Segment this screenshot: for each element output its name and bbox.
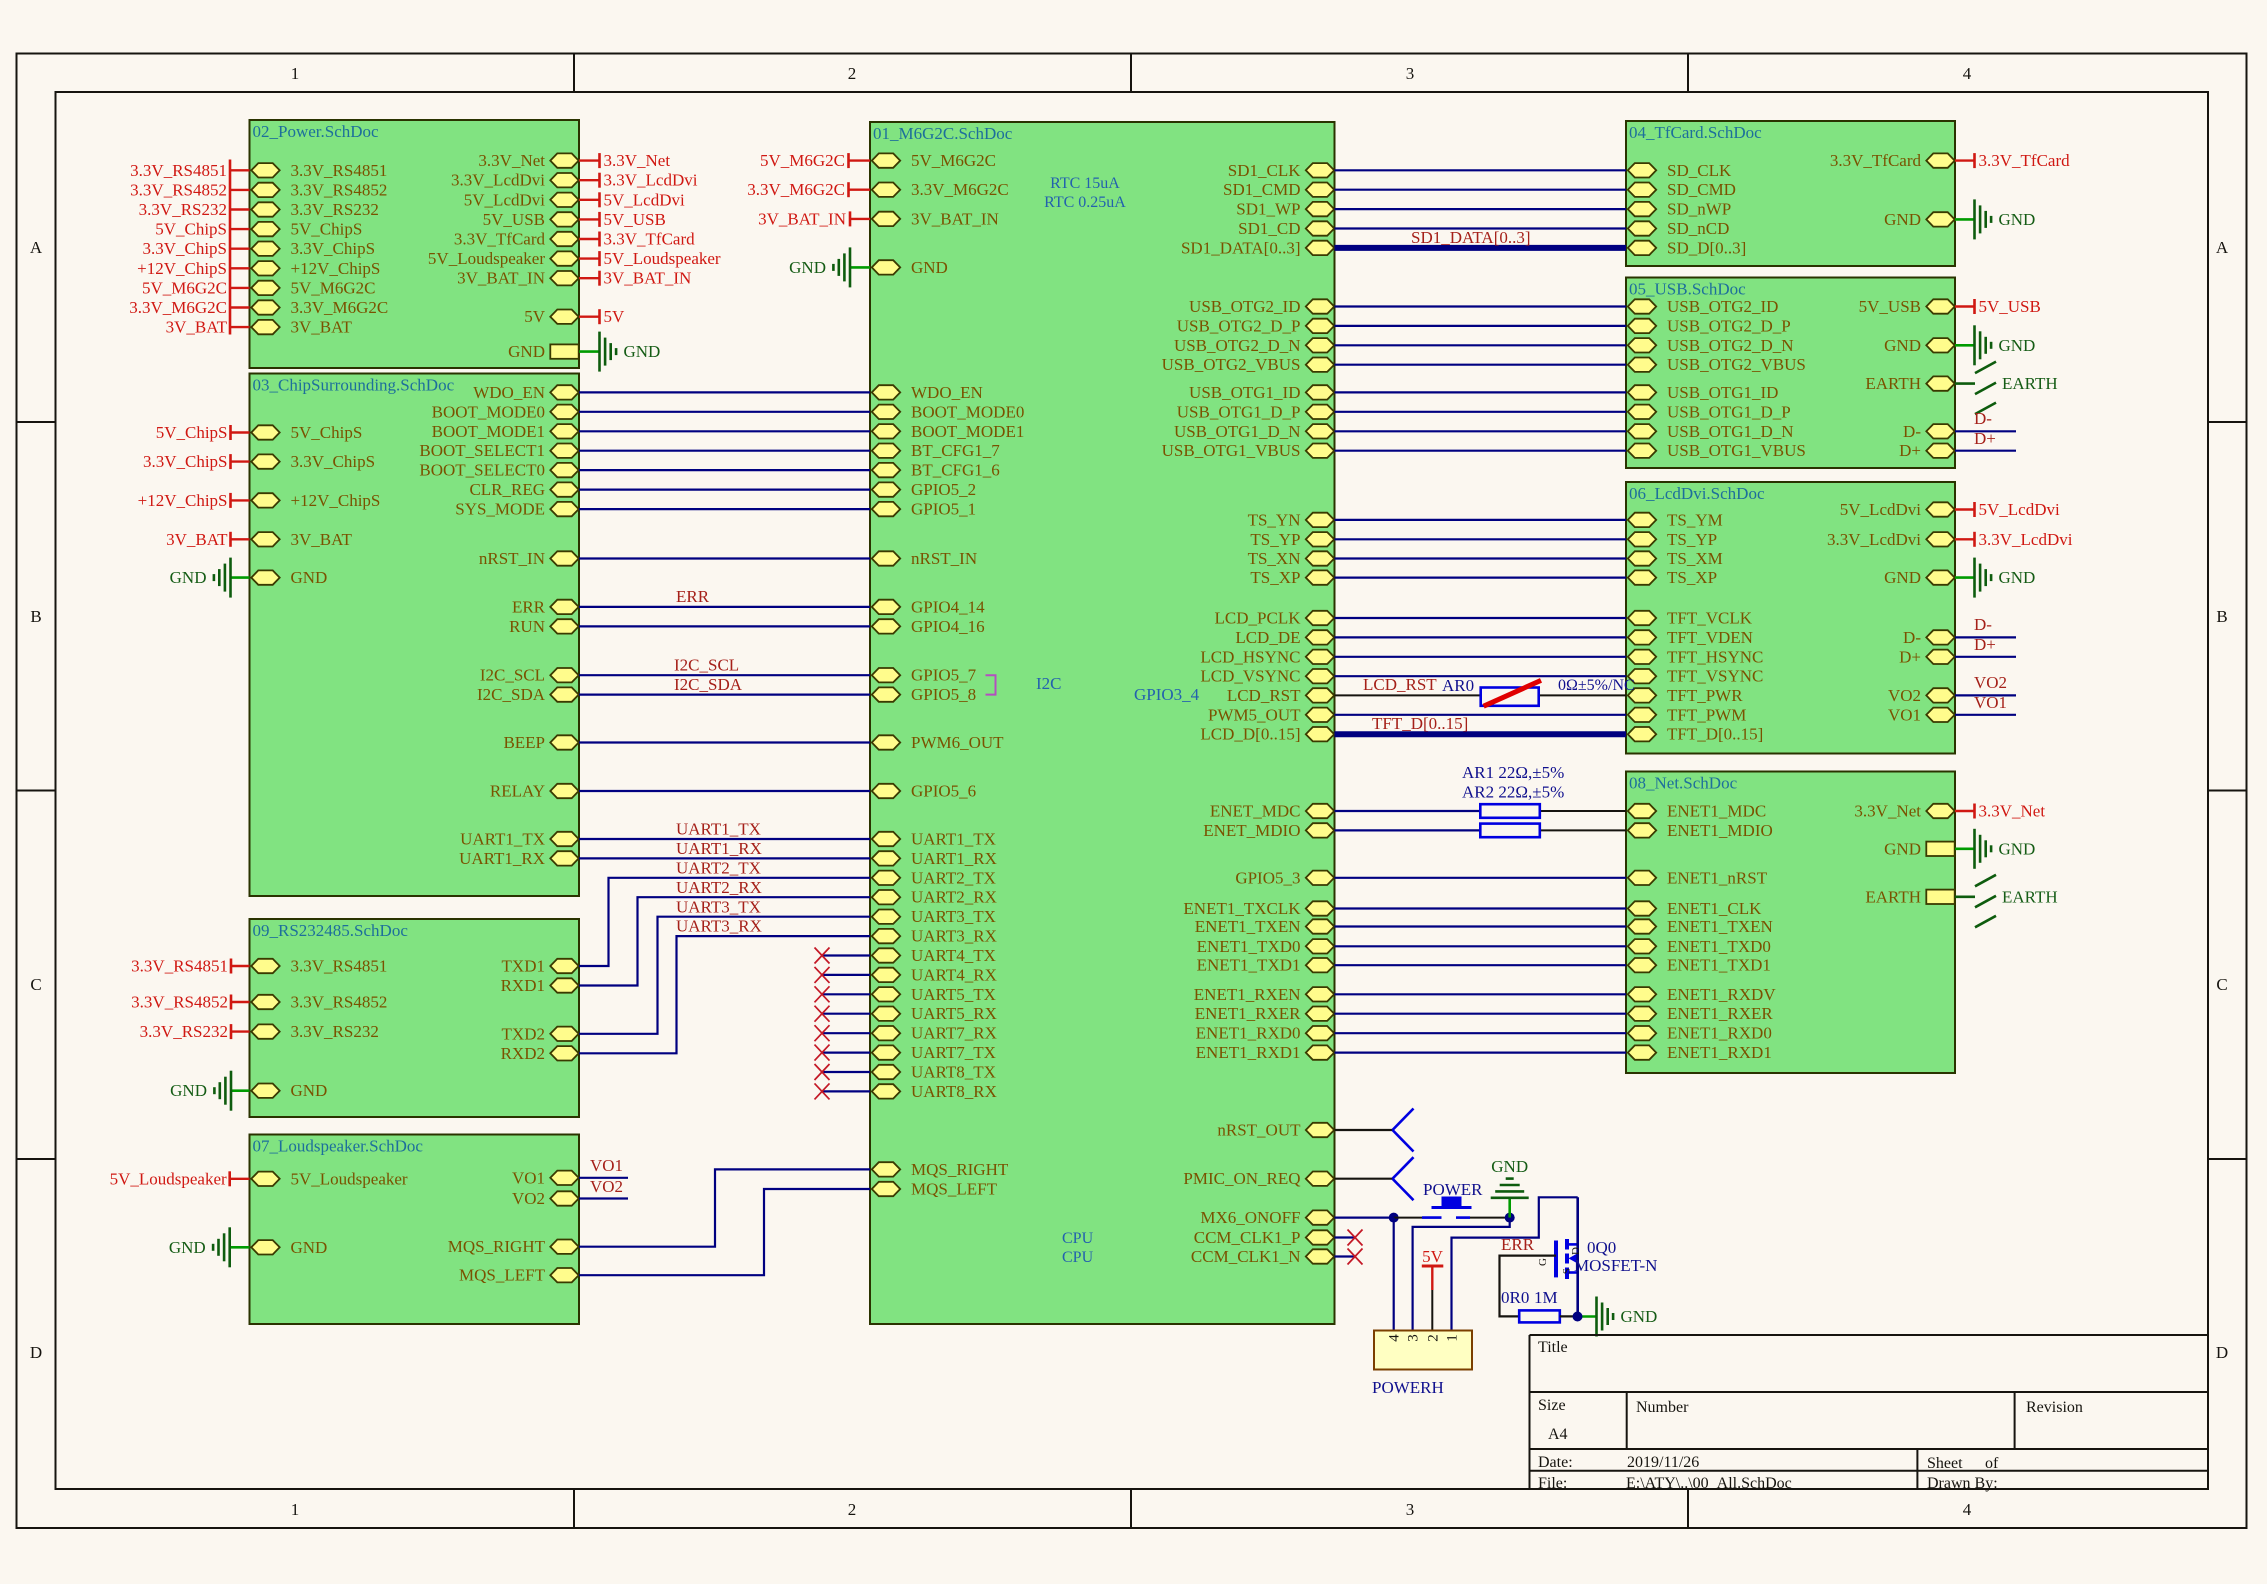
svg-text:GND: GND: [1621, 1307, 1658, 1326]
sheet entry USB_OTG1_ID (05_USB left): [1628, 383, 1779, 402]
svg-text:USB_OTG2_D_P: USB_OTG2_D_P: [1667, 316, 1791, 335]
wire wire UART1_TX: [579, 838, 870, 840]
svg-text:+12V_ChipS: +12V_ChipS: [291, 491, 381, 510]
sheet entry ENET_MDC (01_M6G2C right): [1210, 802, 1334, 821]
sheet entry 3.3V_TfCard (04_TfCard right): [1830, 151, 1955, 170]
wire VO1 stub (06): [1955, 714, 2016, 716]
wire wire ENET_MDIO right: [1540, 829, 1626, 831]
sheet entry ENET1_RXD1 (08_Net left): [1628, 1043, 1772, 1062]
svg-text:5V_USB: 5V_USB: [604, 210, 666, 229]
sheet entry ENET1_MDIO (08_Net left): [1628, 821, 1773, 840]
sheet entry USB_OTG1_D_N (05_USB left): [1628, 422, 1794, 441]
sheet entry UART2_TX (01_M6G2C left): [872, 868, 996, 887]
power port 3V_BAT_IN: [758, 209, 850, 228]
svg-text:ENET1_RXEN: ENET1_RXEN: [1194, 985, 1301, 1004]
svg-text:5V_Loudspeaker: 5V_Loudspeaker: [110, 1169, 227, 1188]
sheet entry SD_CLK (04_TfCard left): [1628, 161, 1732, 180]
svg-text:PWM6_OUT: PWM6_OUT: [911, 733, 1004, 752]
sheet entry 3V_BAT_IN (01_M6G2C left): [872, 209, 999, 228]
wire wire RELAY: [579, 790, 870, 792]
svg-text:ENET1_RXER: ENET1_RXER: [1195, 1004, 1301, 1023]
wire wire UART1_RX: [579, 857, 870, 859]
svg-text:SD_D[0..3]: SD_D[0..3]: [1667, 238, 1746, 257]
svg-text:GND: GND: [1884, 336, 1921, 355]
svg-text:3.3V_LcdDvi: 3.3V_LcdDvi: [604, 171, 698, 190]
wire wire MQS_LEFT: [579, 1189, 870, 1275]
svg-text:UART4_TX: UART4_TX: [911, 946, 996, 965]
sheet entry D+ (05_USB right): [1899, 441, 1955, 460]
svg-text:UART2_RX: UART2_RX: [676, 878, 762, 897]
sheet entry ENET1_RXD0 (08_Net left): [1628, 1024, 1772, 1043]
power port 5V: [1422, 1247, 1444, 1266]
sheet entry ENET1_TXD0 (08_Net left): [1628, 937, 1771, 956]
power port 5V_USB: [1975, 297, 2041, 316]
svg-text:VO2: VO2: [1888, 686, 1921, 705]
sheet entry TS_XP (06_LcdDvi left): [1628, 568, 1717, 587]
svg-text:3.3V_ChipS: 3.3V_ChipS: [143, 452, 228, 471]
svg-text:UART1_TX: UART1_TX: [911, 830, 996, 849]
svg-text:3.3V_TfCard: 3.3V_TfCard: [604, 230, 696, 249]
svg-text:GND: GND: [508, 342, 545, 361]
svg-text:2: 2: [848, 1500, 857, 1519]
wire wire POWERH pin2: [1431, 1290, 1433, 1331]
sheet entry BOOT_MODE0 (03_ChipSurrounding right): [432, 402, 579, 421]
sheet entry LCD_D[0..15] (01_M6G2C right): [1200, 725, 1334, 744]
sheet entry 3.3V_ChipS (02_Power left): [251, 239, 375, 258]
wire stub 5V_ChipS: [231, 431, 250, 433]
MOSFET drain rail: [1576, 1197, 1579, 1317]
sheet entry EARTH (08_Net right): [1865, 887, 1954, 906]
svg-text:ENET_MDIO: ENET_MDIO: [1203, 821, 1300, 840]
svg-text:PMIC_ON_REQ: PMIC_ON_REQ: [1183, 1169, 1300, 1188]
sheet entry TS_XM (06_LcdDvi left): [1628, 549, 1723, 568]
wire wire USB_OTG2_D_N: [1335, 344, 1627, 346]
sheet entry TS_XP (01_M6G2C right): [1250, 568, 1334, 587]
svg-text:USB_OTG1_VBUS: USB_OTG1_VBUS: [1162, 441, 1301, 460]
svg-text:ENET1_nRST: ENET1_nRST: [1667, 868, 1768, 887]
sheet entry 3V_BAT (02_Power left): [251, 318, 352, 337]
sheet entry GND (01_M6G2C left): [872, 258, 948, 277]
sheet entry GND (09_RS232485 left): [251, 1081, 327, 1100]
power port +12V_ChipS: [138, 491, 231, 510]
svg-text:GND: GND: [170, 1081, 207, 1100]
sheet entry 3.3V_LcdDvi (06_LcdDvi right): [1827, 530, 1955, 549]
wire GND wire (07): [230, 1246, 250, 1249]
power port 5V_Loudspeaker: [110, 1169, 230, 1188]
sheet entry GPIO5_8 (01_M6G2C left): [872, 685, 976, 704]
svg-text:MQS_RIGHT: MQS_RIGHT: [448, 1237, 546, 1256]
ground GND: [1597, 1297, 1658, 1337]
svg-text:USB_OTG1_D_N: USB_OTG1_D_N: [1174, 422, 1301, 441]
wire switch contact left: [1422, 1216, 1442, 1219]
svg-text:TS_XM: TS_XM: [1667, 549, 1723, 568]
sheet entry BOOT_SELECT0 (03_ChipSurrounding right): [419, 461, 578, 480]
wire GND wire (06): [1955, 576, 1974, 579]
svg-text:A: A: [2216, 238, 2229, 257]
svg-text:D+: D+: [1974, 429, 1996, 448]
svg-text:3.3V_Net: 3.3V_Net: [478, 151, 545, 170]
svg-text:TS_YM: TS_YM: [1667, 510, 1723, 529]
svg-text:ENET1_TXD1: ENET1_TXD1: [1667, 956, 1771, 975]
sheet entry D- (05_USB right): [1903, 422, 1955, 441]
sheet symbol 01_M6G2C: [870, 122, 1335, 1324]
svg-text:5V_ChipS: 5V_ChipS: [156, 423, 228, 442]
sheet entry USB_OTG2_VBUS (01_M6G2C right): [1162, 355, 1335, 374]
sheet entry CCM_CLK1_N (01_M6G2C right): [1191, 1247, 1334, 1266]
svg-text:D+: D+: [1899, 441, 1921, 460]
svg-text:VO1: VO1: [512, 1168, 545, 1187]
svg-text:Number: Number: [1636, 1399, 1689, 1416]
svg-text:BT_CFG1_7: BT_CFG1_7: [911, 441, 1000, 460]
svg-text:UART1_TX: UART1_TX: [676, 820, 761, 839]
sheet entry ENET1_RXEN (01_M6G2C right): [1194, 985, 1334, 1004]
svg-text:MX6_ONOFF: MX6_ONOFF: [1200, 1208, 1300, 1227]
svg-text:TFT_PWR: TFT_PWR: [1667, 686, 1743, 705]
svg-text:3V_BAT_IN: 3V_BAT_IN: [457, 269, 545, 288]
sheet entry TS_XN (01_M6G2C right): [1248, 549, 1335, 568]
wire wire RUN: [579, 625, 870, 627]
svg-text:5V_LcdDvi: 5V_LcdDvi: [464, 190, 545, 209]
svg-text:09_RS232485.SchDoc: 09_RS232485.SchDoc: [253, 921, 409, 940]
svg-text:UART3_RX: UART3_RX: [676, 917, 762, 936]
svg-text:D: D: [1570, 1247, 1582, 1255]
svg-text:5V_M6G2C: 5V_M6G2C: [291, 278, 376, 297]
wire wire ENET1_RXEN: [1335, 993, 1627, 995]
wire wire USB_OTG1_D_P: [1335, 411, 1627, 413]
sheet entry GND (05_USB right): [1884, 336, 1955, 355]
sheet entry 5V_LcdDvi (02_Power right): [464, 190, 579, 209]
svg-text:GND: GND: [1491, 1157, 1528, 1176]
sheet entry UART8_RX (01_M6G2C left): [872, 1082, 997, 1101]
resistor AR1: [1480, 804, 1540, 818]
sheet entry I2C_SDA (03_ChipSurrounding right): [477, 685, 579, 704]
resistor AR0: [1481, 688, 1539, 706]
svg-text:4: 4: [1963, 64, 1972, 83]
power port 3.3V_Net: [1975, 802, 2046, 821]
wire wire GPIO5_1: [579, 508, 870, 510]
wire wire PMIC_ON_REQ: [1335, 1178, 1393, 1180]
svg-text:GPIO5_8: GPIO5_8: [911, 685, 976, 704]
sheet entry 3.3V_RS232 (09_RS232485 left): [251, 1022, 379, 1041]
wire stub 3V_BAT_IN: [579, 277, 599, 279]
svg-text:USB_OTG1_D_P: USB_OTG1_D_P: [1177, 402, 1301, 421]
svg-text:B: B: [30, 607, 41, 626]
svg-text:ENET1_TXD0: ENET1_TXD0: [1667, 937, 1771, 956]
svg-text:2: 2: [1425, 1334, 1441, 1342]
svg-text:PWM5_OUT: PWM5_OUT: [1208, 705, 1301, 724]
ground GND: [170, 1071, 231, 1111]
svg-text:5V_USB: 5V_USB: [483, 210, 545, 229]
svg-text:3.3V_TfCard: 3.3V_TfCard: [1830, 151, 1922, 170]
power port 3.3V_Net: [600, 151, 671, 170]
svg-text:TS_XP: TS_XP: [1250, 568, 1300, 587]
svg-text:UART5_TX: UART5_TX: [911, 985, 996, 1004]
wire EARTH wire (05): [1955, 382, 1975, 385]
svg-text:CCM_CLK1_N: CCM_CLK1_N: [1191, 1247, 1301, 1266]
sheet entry PWM6_OUT (01_M6G2C left): [872, 733, 1004, 752]
wire wire ENET1_RXD0: [1335, 1032, 1627, 1034]
svg-text:5V_M6G2C: 5V_M6G2C: [911, 151, 996, 170]
svg-text:ERR: ERR: [676, 587, 710, 606]
svg-text:5V_M6G2C: 5V_M6G2C: [760, 151, 845, 170]
svg-text:UART8_RX: UART8_RX: [911, 1082, 997, 1101]
svg-text:TFT_VDEN: TFT_VDEN: [1667, 628, 1753, 647]
svg-text:UART1_RX: UART1_RX: [459, 849, 545, 868]
sheet entry I2C_SCL (03_ChipSurrounding right): [480, 666, 579, 685]
sheet entry 5V_ChipS (03_ChipSurrounding left): [251, 423, 362, 442]
sheet entry VO2 (07_Loudspeaker right): [512, 1189, 579, 1208]
svg-text:GPIO5_3: GPIO5_3: [1235, 868, 1300, 887]
wire stub UART5_TX: [822, 993, 870, 995]
wire wire TS_XN: [1335, 557, 1627, 559]
sheet entry LCD_HSYNC (01_M6G2C right): [1200, 647, 1334, 666]
sheet entry 3.3V_LcdDvi (02_Power right): [451, 171, 579, 190]
svg-text:3.3V_LcdDvi: 3.3V_LcdDvi: [1827, 530, 1921, 549]
svg-text:RTC 0.25uA: RTC 0.25uA: [1044, 194, 1126, 211]
svg-text:GND: GND: [170, 568, 207, 587]
svg-text:ENET1_TXEN: ENET1_TXEN: [1667, 917, 1773, 936]
svg-text:3.3V_RS4851: 3.3V_RS4851: [291, 957, 388, 976]
sheet entry 3.3V_RS4851 (02_Power left): [251, 161, 387, 180]
power port 3.3V_RS4851: [131, 957, 231, 976]
svg-text:UART1_RX: UART1_RX: [911, 849, 997, 868]
svg-text:SD1_DATA[0..3]: SD1_DATA[0..3]: [1181, 238, 1301, 257]
svg-text:VO1: VO1: [1888, 705, 1921, 724]
sheet entry PMIC_ON_REQ (01_M6G2C right): [1183, 1169, 1334, 1188]
svg-text:3.3V_LcdDvi: 3.3V_LcdDvi: [451, 171, 545, 190]
sheet entry PWM5_OUT (01_M6G2C right): [1208, 705, 1334, 724]
sheet entry VO1 (07_Loudspeaker right): [512, 1168, 579, 1187]
no-ERC cross: [815, 1045, 830, 1061]
wire wire SD1_CLK: [1335, 169, 1627, 171]
svg-text:3V_BAT_IN: 3V_BAT_IN: [604, 269, 692, 288]
sheet entry USB_OTG2_D_N (05_USB left): [1628, 336, 1794, 355]
wire wire ENET1_TXD0: [1335, 945, 1627, 947]
svg-text:UART8_TX: UART8_TX: [911, 1063, 996, 1082]
wire wire LCD_DE: [1335, 636, 1627, 638]
wire wire ENET_MDC right: [1540, 810, 1626, 812]
sheet entry SD_nWP (04_TfCard left): [1628, 200, 1731, 219]
wire stub 5V_ChipS: [230, 228, 250, 230]
sheet entry 3.3V_M6G2C (01_M6G2C left): [872, 180, 1009, 199]
svg-text:GND: GND: [291, 1081, 328, 1100]
wire stub UART4_RX: [822, 974, 870, 976]
wire stub +12V_ChipS: [230, 267, 250, 269]
svg-text:UART3_RX: UART3_RX: [911, 927, 997, 946]
svg-text:1: 1: [291, 1500, 300, 1519]
svg-text:GPIO5_6: GPIO5_6: [911, 782, 976, 801]
sheet entry UART2_RX (01_M6G2C left): [872, 888, 997, 907]
svg-text:D-: D-: [1903, 422, 1921, 441]
sheet entry +12V_ChipS (03_ChipSurrounding left): [251, 491, 380, 510]
sheet entry UART5_RX (01_M6G2C left): [872, 1004, 997, 1023]
sheet entry UART3_RX (01_M6G2C left): [872, 927, 997, 946]
svg-text:3V_BAT: 3V_BAT: [291, 318, 353, 337]
svg-text:VO2: VO2: [512, 1189, 545, 1208]
no-ERC cross: [815, 948, 830, 964]
svg-text:1: 1: [1445, 1334, 1461, 1342]
svg-text:+12V_ChipS: +12V_ChipS: [137, 259, 227, 278]
wire stub 5V_Loudspeaker: [579, 257, 599, 259]
sheet entry D+ (06_LcdDvi right): [1899, 647, 1955, 666]
sheet entry BT_CFG1_7 (01_M6G2C left): [872, 441, 1000, 460]
wire stub 3.3V_Net: [1955, 810, 1974, 812]
sheet entry MX6_ONOFF (01_M6G2C right): [1200, 1208, 1334, 1227]
sheet entry LCD_RST (01_M6G2C right): [1227, 686, 1334, 705]
svg-text:ENET1_RXER: ENET1_RXER: [1667, 1004, 1773, 1023]
frame column ticks bottom: [573, 1489, 575, 1528]
svg-text:5V_USB: 5V_USB: [1859, 297, 1921, 316]
wire wire BT_CFG0: [579, 469, 870, 471]
svg-text:5V_USB: 5V_USB: [1979, 297, 2041, 316]
wire wire ENET1_RXD1: [1335, 1051, 1627, 1053]
svg-text:ENET_MDC: ENET_MDC: [1210, 802, 1301, 821]
wire wire LCD_VSYNC: [1335, 675, 1627, 677]
sheet entry BOOT_MODE1 (01_M6G2C left): [872, 422, 1025, 441]
wire stub 5V_M6G2C: [849, 159, 871, 161]
svg-text:ENET1_TXD1: ENET1_TXD1: [1197, 956, 1301, 975]
wire stub 3.3V_RS4852: [231, 1001, 250, 1003]
ground GND: [600, 332, 661, 372]
svg-text:USB_OTG2_ID: USB_OTG2_ID: [1189, 297, 1300, 316]
svg-text:UART4_RX: UART4_RX: [911, 965, 997, 984]
sheet entry GPIO5_7 (01_M6G2C left): [872, 666, 977, 685]
wire wire BOOT_MODE0: [579, 411, 870, 413]
svg-text:GND: GND: [291, 568, 328, 587]
svg-text:UART1_RX: UART1_RX: [676, 839, 762, 858]
svg-text:01_M6G2C.SchDoc: 01_M6G2C.SchDoc: [873, 124, 1013, 143]
sheet symbol 02_Power: [250, 120, 580, 368]
svg-text:UART2_RX: UART2_RX: [911, 888, 997, 907]
ground GND: [1491, 1157, 1529, 1218]
svg-text:3.3V_TfCard: 3.3V_TfCard: [1979, 151, 2071, 170]
ground GND: [170, 558, 231, 598]
ground GND: [1975, 199, 2036, 239]
svg-text:BOOT_SELECT0: BOOT_SELECT0: [419, 461, 545, 480]
sheet entry MQS_RIGHT (01_M6G2C left): [872, 1160, 1009, 1179]
svg-text:BEEP: BEEP: [503, 733, 545, 752]
svg-text:0Q0: 0Q0: [1587, 1238, 1616, 1257]
wire stub 3.3V_RS232: [231, 1030, 250, 1032]
svg-text:GPIO5_1: GPIO5_1: [911, 500, 976, 519]
svg-text:GPIO3_4: GPIO3_4: [1134, 685, 1200, 704]
svg-text:UART7_RX: UART7_RX: [911, 1024, 997, 1043]
wire wire TS_YN: [1335, 519, 1627, 521]
svg-text:3.3V_M6G2C: 3.3V_M6G2C: [911, 180, 1009, 199]
sheet entry GPIO4_16 (01_M6G2C left): [872, 617, 985, 636]
sheet entry SD_nCD (04_TfCard left): [1628, 219, 1730, 238]
svg-text:3.3V_RS232: 3.3V_RS232: [291, 1022, 379, 1041]
svg-text:5V_Loudspeaker: 5V_Loudspeaker: [428, 249, 545, 268]
sheet entry USB_OTG2_ID (01_M6G2C right): [1189, 297, 1334, 316]
wire wire LCD_RST right: [1539, 694, 1626, 696]
svg-text:02_Power.SchDoc: 02_Power.SchDoc: [253, 122, 380, 141]
svg-text:Size: Size: [1538, 1397, 1566, 1414]
wire stub 3.3V_RS4852: [230, 189, 250, 191]
sheet entry GPIO5_3 (01_M6G2C right): [1235, 868, 1334, 887]
sheet symbol 04_TfCard: [1626, 121, 1955, 266]
wire wire LCD_HSYNC: [1335, 656, 1627, 658]
power port 3.3V_ChipS: [143, 452, 231, 471]
svg-text:UART7_TX: UART7_TX: [911, 1043, 996, 1062]
sheet entry 5V_M6G2C (02_Power left): [251, 278, 375, 297]
svg-text:2019/11/26: 2019/11/26: [1627, 1454, 1699, 1471]
svg-text:AR0: AR0: [1442, 676, 1474, 695]
sheet entry GND (07_Loudspeaker left): [251, 1238, 327, 1257]
sheet symbol 03_ChipSurrounding: [250, 374, 580, 897]
svg-text:Title: Title: [1538, 1339, 1568, 1356]
wire wire SD1_CMD: [1335, 189, 1627, 191]
wire stub 5V_USB: [579, 218, 599, 220]
svg-text:I2C_SDA: I2C_SDA: [477, 685, 546, 704]
power port 3V_BAT: [166, 530, 230, 549]
wire D+ stub (05): [1955, 450, 2016, 452]
svg-text:1M: 1M: [1534, 1288, 1558, 1307]
frame row ticks right: [2208, 421, 2247, 423]
wire wire ENET1_TXEN: [1335, 925, 1627, 927]
svg-text:5V_ChipS: 5V_ChipS: [155, 220, 227, 239]
wire stub UART8_RX: [822, 1090, 870, 1092]
sheet entry ENET1_RXER (08_Net left): [1628, 1004, 1774, 1023]
sheet entry 3.3V_Net (02_Power right): [478, 151, 578, 170]
svg-text:D-: D-: [1903, 628, 1921, 647]
pushbutton POWER bar: [1432, 1206, 1472, 1209]
sheet entry SYS_MODE (03_ChipSurrounding right): [455, 500, 578, 519]
sheet entry 3.3V_RS4852 (02_Power left): [251, 180, 387, 199]
wire VO2 stub (07): [579, 1197, 628, 1199]
sheet entry TFT_PWM (06_LcdDvi left): [1628, 705, 1747, 724]
wire stub 3.3V_Net: [579, 159, 599, 161]
wire stub 3.3V_RS4851: [230, 169, 250, 171]
svg-text:LCD_RST: LCD_RST: [1227, 686, 1301, 705]
svg-text:SD1_CMD: SD1_CMD: [1223, 180, 1300, 199]
power port 3.3V_LcdDvi: [600, 171, 698, 190]
svg-text:VO2: VO2: [1974, 673, 2007, 692]
junction: [1573, 1312, 1583, 1322]
sheet entry 3.3V_TfCard (02_Power right): [454, 230, 579, 249]
sheet entry 3V_BAT (03_ChipSurrounding left): [251, 530, 352, 549]
svg-text:nRST_OUT: nRST_OUT: [1217, 1121, 1301, 1140]
sheet entry MQS_LEFT (07_Loudspeaker right): [459, 1266, 579, 1285]
svg-text:+12V_ChipS: +12V_ChipS: [138, 491, 228, 510]
svg-text:MQS_LEFT: MQS_LEFT: [459, 1266, 546, 1285]
svg-text:nRST_IN: nRST_IN: [479, 549, 545, 568]
no-connect slash AR0: [1484, 680, 1541, 706]
harness entry bracket: [1393, 1109, 1414, 1152]
wire GND wire (mosfet): [1578, 1315, 1597, 1318]
svg-text:G: G: [1537, 1258, 1549, 1266]
svg-text:I2C_SCL: I2C_SCL: [480, 666, 545, 685]
svg-text:05_USB.SchDoc: 05_USB.SchDoc: [1629, 280, 1746, 299]
svg-text:ENET1_RXDV: ENET1_RXDV: [1667, 985, 1776, 1004]
sheet entry GPIO5_2 (01_M6G2C left): [872, 480, 976, 499]
wire GND wire (03): [231, 576, 250, 579]
wire wire nRST_OUT: [1335, 1129, 1393, 1131]
sheet entry UART7_RX (01_M6G2C left): [872, 1024, 997, 1043]
svg-text:TS_XN: TS_XN: [1248, 549, 1301, 568]
sheet entry SD_CMD (04_TfCard left): [1628, 180, 1736, 199]
wire wire POWERH pin4: [1393, 1218, 1395, 1331]
wire stub 3.3V_TfCard: [1955, 159, 1974, 161]
wire wire MQS_RIGHT: [579, 1169, 870, 1246]
wire wire switch right: [1460, 1217, 1510, 1219]
wire stub 3.3V_LcdDvi: [1955, 538, 1974, 540]
wire stub CCM_CLK1_N: [1335, 1255, 1356, 1257]
ground GND: [789, 247, 850, 287]
svg-text:USB_OTG2_ID: USB_OTG2_ID: [1667, 297, 1778, 316]
svg-text:GPIO5_2: GPIO5_2: [911, 480, 976, 499]
svg-text:RXD2: RXD2: [501, 1044, 545, 1063]
